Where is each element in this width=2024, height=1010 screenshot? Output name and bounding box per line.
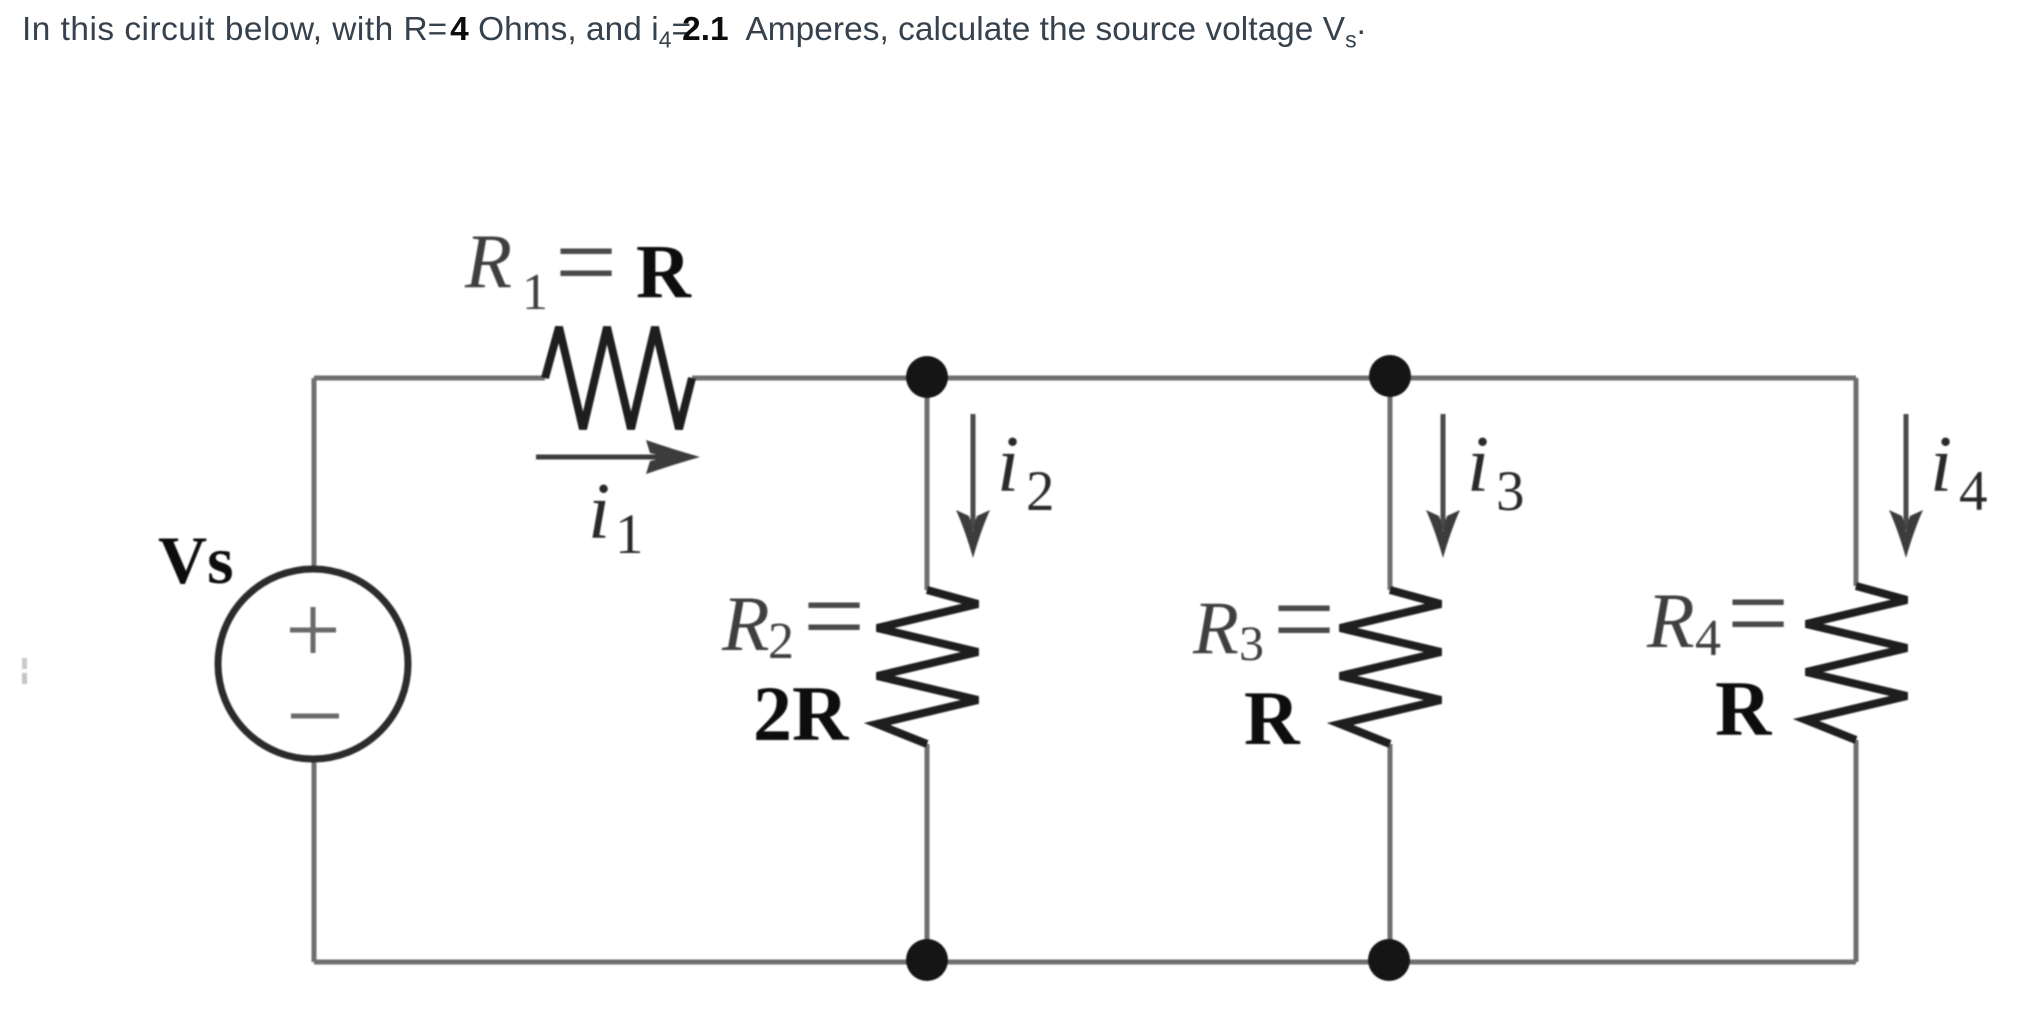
svg-text:4: 4 — [1959, 460, 1988, 523]
svg-text:4: 4 — [1695, 610, 1721, 667]
svg-text:3: 3 — [1239, 615, 1264, 671]
svg-text:=: = — [1273, 558, 1335, 680]
svg-text:1: 1 — [615, 503, 644, 566]
svg-text:=: = — [803, 555, 865, 677]
svg-text:i: i — [1930, 421, 1952, 509]
svg-text:i: i — [997, 421, 1019, 509]
svg-text:R: R — [1244, 675, 1301, 761]
svg-text:=: = — [1727, 552, 1789, 674]
svg-text:R: R — [721, 580, 770, 667]
svg-text:3: 3 — [1496, 460, 1525, 523]
svg-text:R: R — [636, 230, 692, 314]
svg-text:R: R — [1646, 577, 1695, 664]
svg-text:2: 2 — [1026, 460, 1055, 523]
svg-text:=: = — [555, 201, 617, 323]
svg-text:R: R — [1715, 665, 1773, 752]
svg-text:i: i — [588, 468, 610, 556]
svg-text:2: 2 — [768, 613, 794, 670]
svg-text:R: R — [464, 218, 512, 304]
svg-text:2R: 2R — [753, 670, 850, 757]
svg-text:i: i — [1467, 421, 1489, 509]
svg-text:Vs: Vs — [158, 522, 234, 598]
svg-text:R: R — [1192, 587, 1239, 670]
svg-text:1: 1 — [522, 264, 548, 321]
